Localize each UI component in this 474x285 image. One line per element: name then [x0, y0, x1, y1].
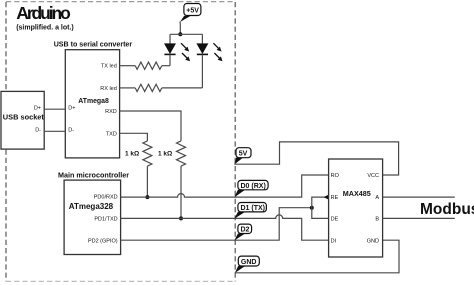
svg-text:1 kΩ: 1 kΩ: [158, 151, 172, 158]
LED TX (left): [164, 34, 190, 65]
junction D2 to RE/DE bracket: [310, 206, 314, 210]
svg-text:D-: D-: [35, 128, 41, 134]
svg-text:D2: D2: [241, 227, 250, 234]
wire B to Modbus: [383, 217, 455, 219]
svg-text:+5V: +5V: [186, 8, 199, 15]
svg-text:DE: DE: [331, 217, 339, 223]
svg-text:D1 (TX): D1 (TX): [241, 205, 266, 212]
net tag D2: [234, 224, 251, 240]
svg-text:ATmega8: ATmega8: [78, 98, 109, 105]
svg-text:(simplified. a lot.): (simplified. a lot.): [16, 25, 74, 32]
+5V power tag: [180, 4, 201, 23]
wire resistor to LED TX: [162, 65, 170, 67]
svg-text:VCC: VCC: [367, 173, 379, 179]
resistor 1k (right, RXD to PD1): [177, 141, 186, 166]
wire USB D- to ATmega8: [44, 130, 65, 132]
svg-text:1 kΩ: 1 kΩ: [125, 151, 139, 158]
svg-text:PD2 (GPIO): PD2 (GPIO): [88, 238, 118, 244]
svg-text:MAX485: MAX485: [343, 189, 371, 198]
svg-text:PD1/TXD: PD1/TXD: [94, 217, 117, 223]
resistor RX led (series): [135, 84, 162, 91]
resistor 1k (left, TXD to PD0): [143, 141, 152, 166]
wire LED top rail: [170, 33, 202, 35]
wire net D1: PD1 to DI with hop over D2 riser: [121, 215, 329, 240]
junction right 1k on PD1 wire: [179, 216, 183, 220]
wire net D2: PD2 up to RE/DE junction: [121, 208, 312, 241]
wire resistor to LED RX: [162, 87, 203, 89]
svg-text:5V: 5V: [239, 151, 248, 158]
wire left 1k to PD0 net: [146, 166, 148, 197]
svg-text:B: B: [375, 217, 379, 223]
svg-text:DI: DI: [331, 238, 337, 244]
USB socket box: [1, 91, 44, 149]
wire TXD to left 1k resistor: [120, 133, 148, 141]
svg-text:D0 (RX): D0 (RX): [241, 183, 266, 190]
svg-text:TX led: TX led: [101, 64, 117, 70]
svg-text:A: A: [375, 195, 379, 201]
svg-text:RE: RE: [331, 195, 339, 201]
net tag 5V: [234, 148, 251, 165]
junction +5V rail: [178, 32, 182, 36]
svg-text:D-: D-: [68, 128, 74, 134]
Arduino boundary (dashed box): [5, 2, 7, 281]
wire net 5V to VCC: [234, 142, 398, 175]
svg-text:GND: GND: [367, 238, 379, 244]
svg-text:Modbus: Modbus: [420, 201, 474, 218]
svg-text:D+: D+: [68, 105, 75, 111]
wire RX led pin to resistor: [120, 87, 136, 89]
IC MAX485 box: [329, 159, 383, 257]
svg-text:Main microcontroller: Main microcontroller: [58, 170, 129, 179]
svg-text:PD0/RXD: PD0/RXD: [94, 195, 118, 201]
IC ATmega328 box: [64, 180, 121, 254]
wire USB D+ to ATmega8: [44, 108, 65, 110]
LED RX (right): [197, 34, 223, 88]
wire RE/DE bracket: [312, 197, 329, 218]
svg-text:D+: D+: [34, 105, 41, 111]
svg-text:USB socket: USB socket: [3, 113, 45, 122]
LED TX emission arrows: [181, 43, 186, 48]
inverting wedge on RE pin: [324, 195, 329, 200]
svg-text:Arduino: Arduino: [16, 3, 70, 23]
svg-text:ATmega328: ATmega328: [69, 202, 114, 211]
resistor TX led (series): [135, 62, 162, 69]
svg-text:RX led: RX led: [100, 86, 117, 92]
net tag GND: [235, 256, 259, 273]
svg-text:USB to serial converter: USB to serial converter: [54, 41, 133, 49]
svg-text:GND: GND: [241, 259, 257, 266]
IC ATmega8 box: [65, 50, 119, 158]
wire +5V down to LED rail: [179, 22, 181, 35]
wire RXD to right 1k resistor: [120, 111, 181, 141]
net tag D0 (RX): [234, 180, 268, 197]
wire net D0: PD0 to RO with hop over right 1k: [121, 175, 329, 197]
junction left 1k on PD0 wire: [145, 195, 149, 199]
net tag D1 (TX): [234, 203, 266, 219]
wire A to Modbus: [383, 196, 455, 198]
svg-text:RO: RO: [331, 173, 340, 179]
svg-text:RXD: RXD: [105, 109, 117, 115]
svg-text:TXD: TXD: [106, 131, 117, 137]
wire right 1k down across PD0 to PD1: [180, 166, 182, 218]
wire net GND to MAX485 GND: [235, 240, 399, 273]
wire TX led pin to resistor: [120, 65, 136, 67]
LED RX emission arrows: [213, 43, 218, 48]
